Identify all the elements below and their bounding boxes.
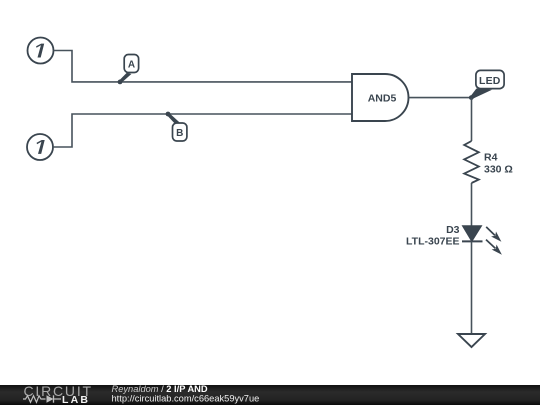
wire from bottom source to AND gate lower input (53, 114, 352, 147)
LED D3 body (anode triangle) (463, 226, 482, 241)
junction dot for net B (166, 112, 171, 117)
AND gate AND5 (352, 74, 408, 121)
svg-text:AND5: AND5 (368, 93, 397, 105)
wire from LED node down to resistor R4 (471, 98, 473, 141)
svg-text:LTL-307EE: LTL-307EE (406, 236, 459, 248)
net flag LED leader (470, 89, 492, 100)
svg-text:R4: R4 (484, 152, 498, 164)
net flag A (124, 55, 138, 73)
footer title: author and circuit name (112, 384, 208, 394)
wire from resistor R4 to LED D3 anode (471, 183, 473, 226)
resistor R4 value label 330 ohm (484, 164, 513, 176)
footer bar (0, 385, 540, 405)
logic input source 1 (bottom, drives node B) (27, 134, 53, 160)
CircuitLab logo wordmark LAB (62, 394, 90, 405)
net flag A leader (119, 73, 131, 83)
CircuitLab logo resistor zigzag (23, 396, 46, 403)
svg-text:D3: D3 (446, 224, 460, 236)
LED D3 light emission arrow 2 (486, 240, 502, 255)
svg-text:LAB: LAB (62, 394, 90, 405)
net flag B (173, 123, 187, 141)
wire from AND gate output to LED node (409, 97, 472, 99)
svg-text:LED: LED (479, 75, 501, 87)
ground symbol (458, 334, 485, 347)
net flag LED (476, 70, 504, 88)
resistor R4 designator label (484, 152, 498, 164)
LED D3 light emission arrow 1 (486, 227, 501, 242)
svg-text:A: A (128, 60, 135, 71)
wire from LED D3 cathode to ground (471, 241, 473, 334)
wire from top source to AND gate upper input (54, 51, 353, 82)
LED D3 designator label (446, 224, 460, 236)
junction dot for net LED (469, 95, 474, 100)
LED D3 part number label LTL-307EE (406, 236, 459, 248)
junction dot for net A (118, 80, 123, 85)
logic input source 1 (top, drives node A) (28, 38, 54, 64)
footer URL (112, 393, 260, 403)
net flag B leader (167, 113, 180, 124)
resistor R4 (464, 141, 479, 183)
svg-text:B: B (176, 128, 183, 139)
LED D3 cathode bar (462, 240, 483, 242)
svg-text:http://circuitlab.com/c66eak59: http://circuitlab.com/c66eak59yv7ue (112, 393, 260, 403)
CircuitLab logo wordmark CIRCUIT (24, 383, 93, 399)
CircuitLab logo diode symbol (47, 395, 62, 402)
svg-text:330 Ω: 330 Ω (484, 164, 513, 176)
